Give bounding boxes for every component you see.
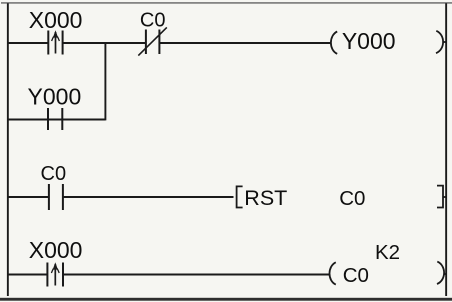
bottom border line [0,298,452,301]
wire rung1 left [8,42,48,44]
wire branch horizontal [8,119,105,121]
svg-text:Y000: Y000 [28,84,82,110]
svg-text:C0: C0 [41,163,67,185]
coil C0 counter [330,262,445,285]
top border line [1,2,452,4]
contact C0 normally-closed [138,27,167,55]
contact X000 rising edge (rung3) [47,262,63,286]
RST block opening bracket [237,186,243,207]
wire rung3 left [8,274,47,276]
wire coil to rail rung1 [443,41,446,43]
left power rail [7,3,9,296]
wire rung3 right [63,274,330,276]
svg-text:RST: RST [244,186,287,210]
wire rung1 mid [63,42,145,44]
right power rail [445,3,447,296]
wire rung2 right [63,196,234,198]
contact X000 rising edge [48,30,62,54]
wire rung1 right [159,42,331,44]
contact Y000 [48,108,62,130]
svg-text:X000: X000 [29,237,83,263]
svg-text:C0: C0 [339,187,365,210]
svg-text:K2: K2 [375,241,400,264]
wire parallel branch vertical [104,42,106,120]
contact C0 normally-open [49,184,63,210]
svg-text:Y000: Y000 [342,28,396,54]
svg-text:X000: X000 [29,7,83,33]
svg-text:C0: C0 [140,10,166,32]
RST block closing bracket [437,186,443,208]
wire coil to rail rung3 [444,273,446,275]
wire rung2 left [8,196,48,198]
wire bracket to rail rung2 [443,196,446,198]
svg-text:C0: C0 [343,264,369,287]
coil Y000 [331,31,443,54]
